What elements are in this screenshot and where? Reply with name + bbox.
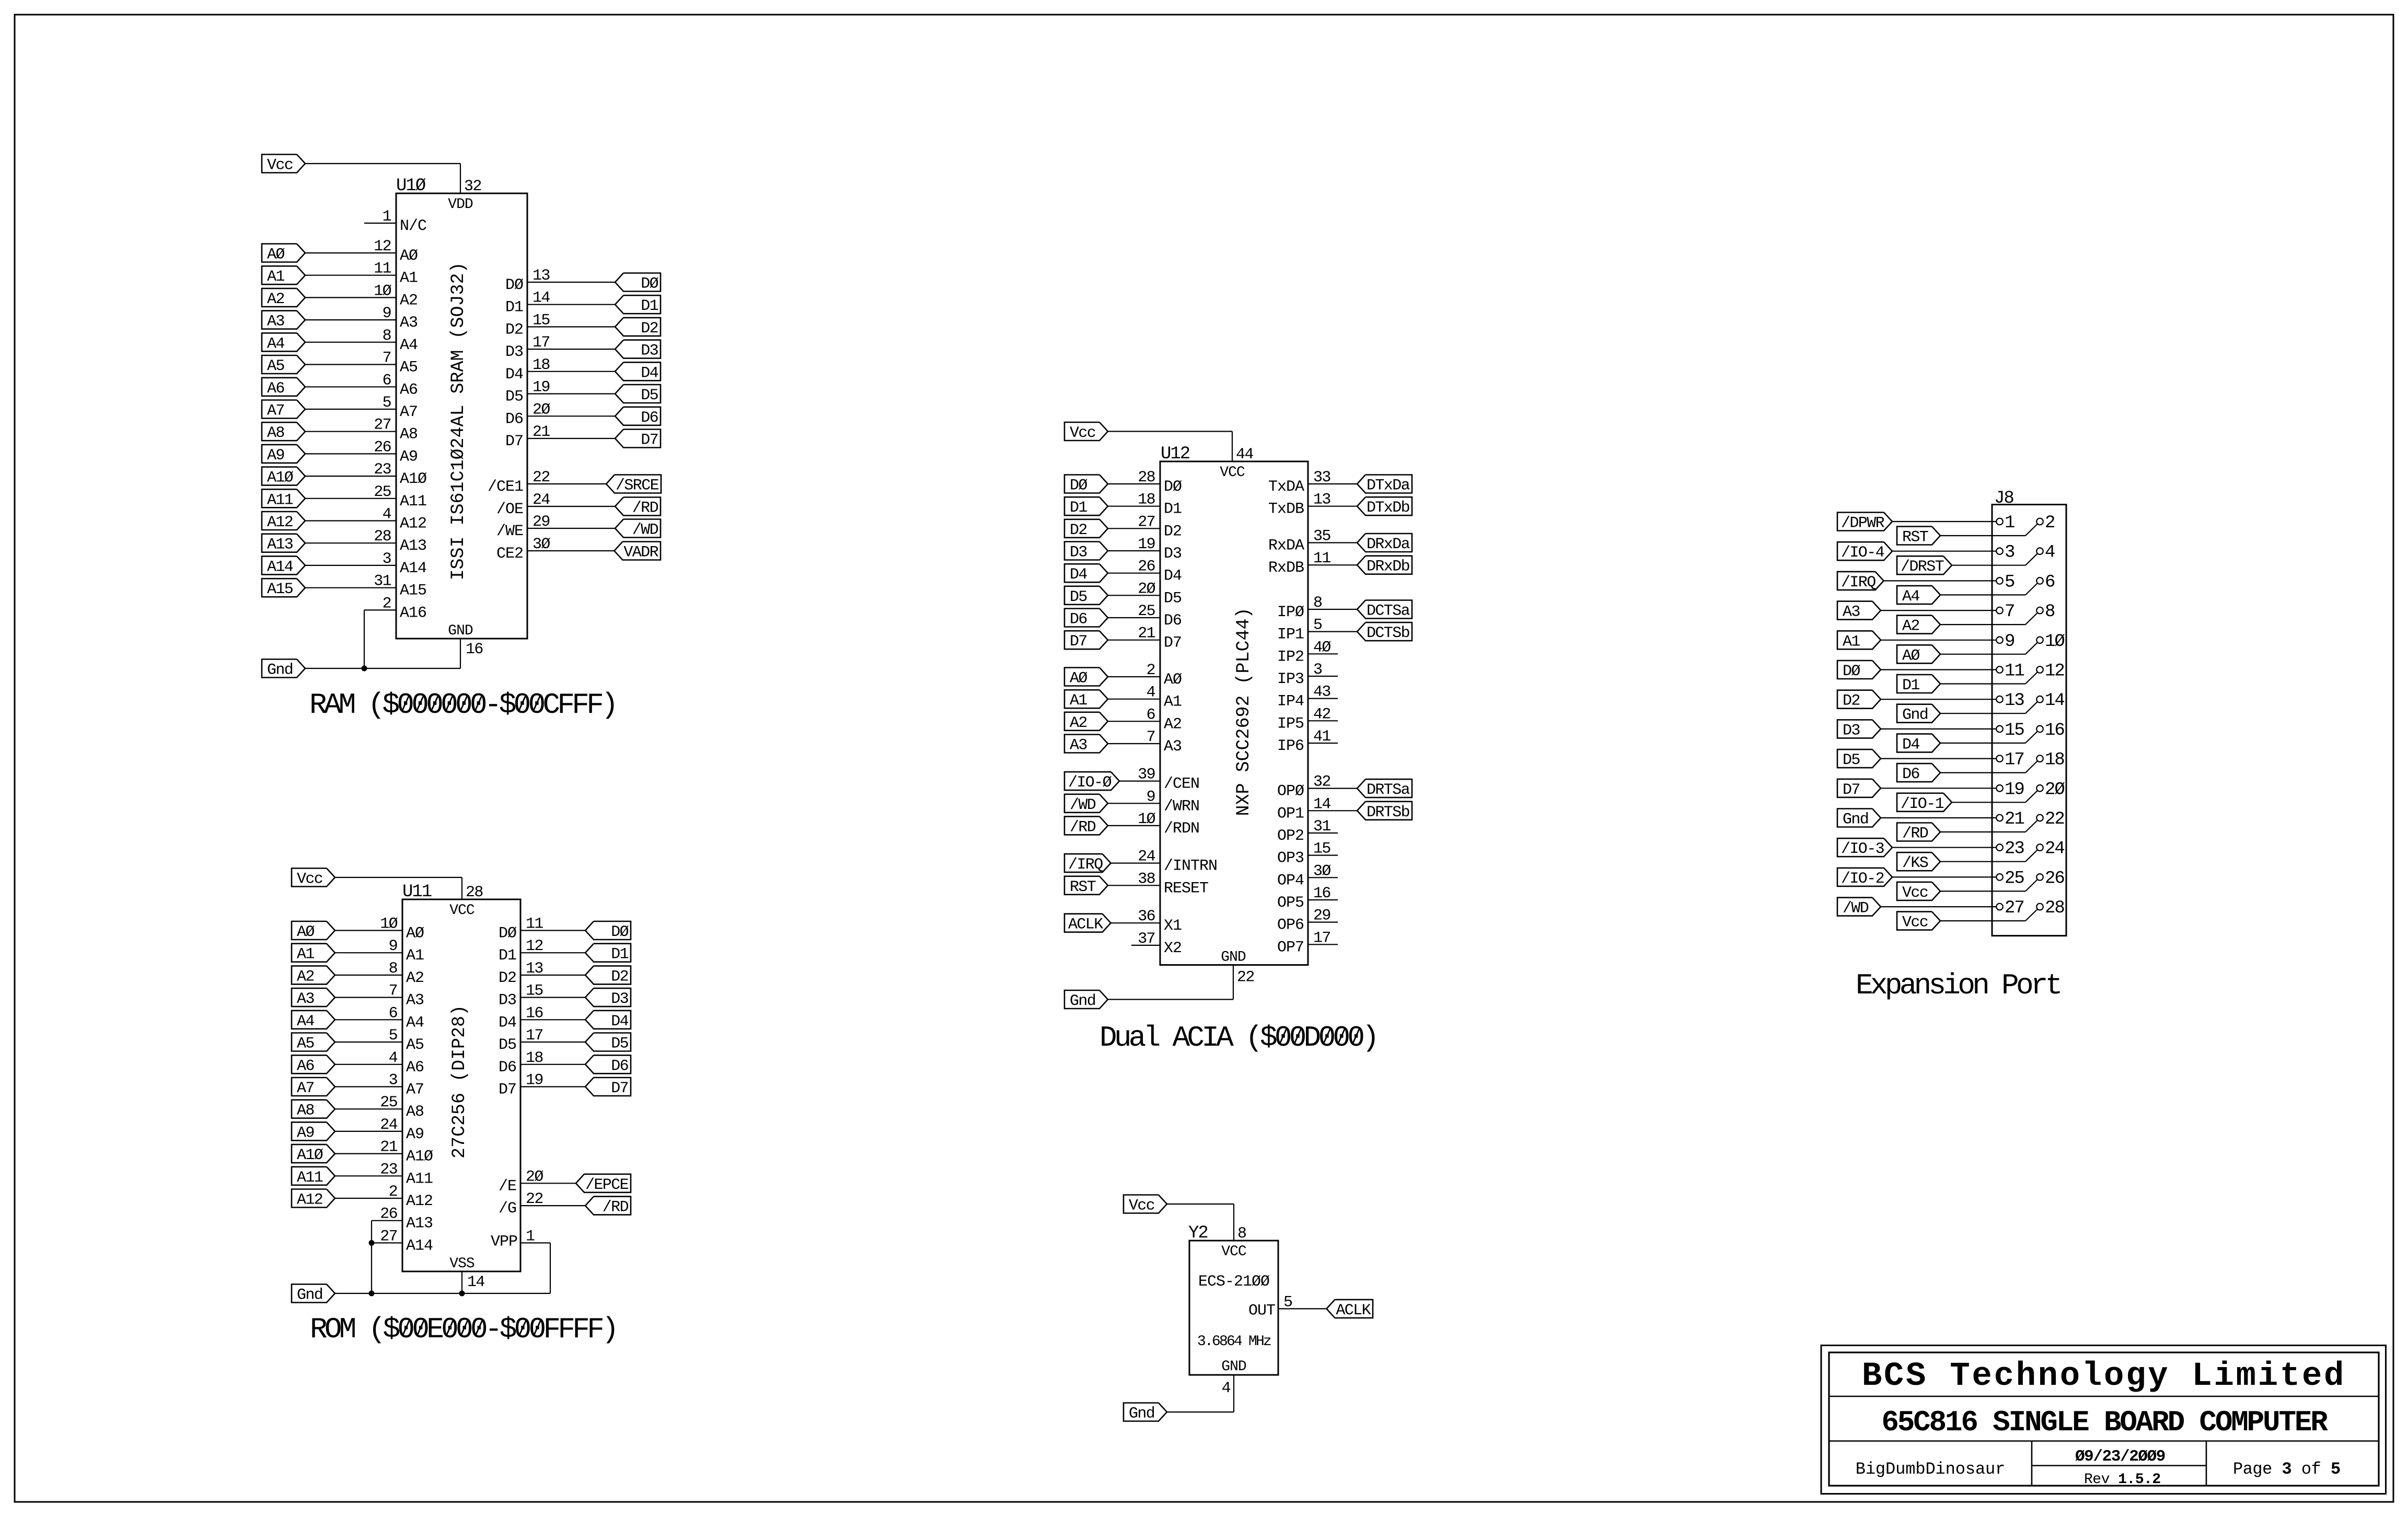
- svg-text:2: 2: [389, 1183, 397, 1201]
- svg-text:28: 28: [374, 528, 391, 546]
- svg-text:/INTRN: /INTRN: [1164, 858, 1217, 875]
- svg-text:D7: D7: [611, 1080, 628, 1097]
- svg-text:22: 22: [2045, 809, 2064, 829]
- svg-text:23: 23: [380, 1161, 397, 1178]
- svg-text:A13: A13: [406, 1215, 433, 1233]
- svg-text:5: 5: [2005, 572, 2015, 592]
- svg-text:IP6: IP6: [1277, 737, 1304, 755]
- svg-text:IP3: IP3: [1277, 670, 1304, 688]
- svg-text:15: 15: [526, 982, 543, 1000]
- svg-text:A4: A4: [267, 335, 284, 353]
- svg-text:AØ: AØ: [267, 246, 285, 264]
- svg-text:VDD: VDD: [448, 196, 473, 213]
- svg-text:DØ: DØ: [641, 275, 658, 293]
- svg-text:A13: A13: [267, 536, 293, 554]
- svg-text:D1: D1: [505, 299, 523, 317]
- svg-text:A9: A9: [267, 447, 284, 465]
- svg-text:A6: A6: [297, 1057, 314, 1075]
- svg-text:D2: D2: [611, 968, 628, 986]
- svg-text:A9: A9: [400, 448, 418, 466]
- svg-text:28: 28: [2045, 898, 2064, 918]
- svg-text:A1Ø: A1Ø: [297, 1147, 323, 1164]
- svg-text:1: 1: [2005, 513, 2015, 533]
- svg-text:15: 15: [532, 311, 550, 329]
- svg-text:RxDB: RxDB: [1268, 559, 1304, 577]
- svg-text:1Ø: 1Ø: [380, 916, 398, 933]
- svg-text:17: 17: [532, 334, 550, 352]
- svg-text:U1Ø: U1Ø: [396, 176, 426, 196]
- svg-text:D6: D6: [611, 1057, 628, 1075]
- svg-text:DCTSa: DCTSa: [1367, 603, 1410, 620]
- svg-text:9: 9: [389, 938, 397, 955]
- svg-text:21: 21: [1138, 625, 1155, 643]
- svg-text:D5: D5: [611, 1035, 628, 1053]
- svg-text:DTxDa: DTxDa: [1367, 477, 1410, 495]
- svg-text:AØ: AØ: [406, 925, 424, 943]
- svg-text:14: 14: [532, 290, 550, 307]
- svg-text:IP2: IP2: [1277, 648, 1304, 666]
- svg-text:A5: A5: [400, 359, 418, 377]
- svg-text:16: 16: [466, 641, 483, 658]
- svg-text:14: 14: [1313, 795, 1330, 813]
- svg-text:A4: A4: [406, 1014, 424, 1032]
- svg-text:DØ: DØ: [1843, 663, 1860, 680]
- svg-text:6: 6: [1147, 706, 1155, 724]
- svg-text:D6: D6: [1164, 612, 1182, 630]
- svg-text:11: 11: [1313, 550, 1330, 568]
- svg-text:4: 4: [2045, 543, 2055, 563]
- svg-text:23: 23: [2005, 839, 2024, 859]
- svg-text:29: 29: [1313, 907, 1330, 925]
- svg-text:13: 13: [2005, 691, 2024, 711]
- svg-text:A1: A1: [400, 270, 418, 287]
- svg-text:D5: D5: [641, 387, 658, 404]
- svg-text:DRxDb: DRxDb: [1367, 558, 1409, 576]
- svg-text:D3: D3: [1164, 545, 1182, 563]
- svg-text:AØ: AØ: [1070, 670, 1087, 688]
- svg-text:/IO-4: /IO-4: [1841, 544, 1884, 562]
- svg-text:A1: A1: [1070, 692, 1087, 710]
- svg-text:D3: D3: [505, 343, 523, 361]
- svg-text:4: 4: [383, 506, 391, 524]
- svg-text:/RDN: /RDN: [1164, 820, 1199, 838]
- svg-text:D2: D2: [1164, 523, 1182, 540]
- svg-text:Gnd: Gnd: [1902, 707, 1928, 724]
- svg-text:D4: D4: [499, 1014, 516, 1032]
- svg-text:8: 8: [1237, 1225, 1246, 1243]
- svg-text:A1: A1: [406, 947, 424, 965]
- svg-text:22: 22: [532, 469, 550, 487]
- svg-text:A3: A3: [406, 992, 424, 1010]
- svg-text:/RD: /RD: [1902, 825, 1928, 843]
- svg-text:5: 5: [1313, 617, 1322, 634]
- svg-text:D4: D4: [641, 364, 658, 382]
- svg-text:32: 32: [1313, 773, 1330, 791]
- svg-text:28: 28: [466, 884, 483, 901]
- svg-text:1Ø: 1Ø: [2045, 632, 2065, 652]
- svg-text:VCC: VCC: [1221, 1244, 1246, 1260]
- svg-text:D4: D4: [611, 1013, 628, 1031]
- svg-text:26: 26: [374, 438, 391, 456]
- svg-text:AØ: AØ: [297, 923, 315, 941]
- svg-text:25: 25: [1138, 603, 1155, 620]
- svg-text:12: 12: [2045, 662, 2064, 681]
- svg-text:11: 11: [374, 260, 391, 278]
- svg-text:31: 31: [374, 573, 391, 591]
- svg-text:44: 44: [1236, 446, 1253, 464]
- svg-text:3: 3: [389, 1072, 398, 1090]
- svg-text:A4: A4: [400, 337, 418, 354]
- svg-text:1Ø: 1Ø: [1138, 811, 1155, 828]
- svg-text:7: 7: [1147, 728, 1155, 746]
- svg-text:Rev 1.5.2: Rev 1.5.2: [2084, 1472, 2161, 1488]
- svg-text:28: 28: [1138, 469, 1155, 487]
- svg-text:A1: A1: [1843, 633, 1860, 651]
- svg-text:3: 3: [1313, 661, 1322, 679]
- svg-text:A3: A3: [1843, 604, 1860, 621]
- svg-text:A16: A16: [400, 604, 426, 622]
- svg-text:19: 19: [526, 1072, 543, 1090]
- svg-text:D6: D6: [499, 1059, 516, 1077]
- svg-text:5: 5: [389, 1027, 398, 1045]
- svg-text:A3: A3: [297, 990, 314, 1008]
- svg-text:19: 19: [1138, 536, 1155, 553]
- svg-text:VPP: VPP: [491, 1233, 517, 1251]
- svg-text:J8: J8: [1994, 489, 2013, 508]
- svg-text:AØ: AØ: [1164, 671, 1182, 689]
- svg-text:GND: GND: [1221, 950, 1246, 966]
- svg-text:8: 8: [2045, 602, 2055, 622]
- svg-text:Vcc: Vcc: [267, 157, 293, 175]
- svg-text:3.6864 MHz: 3.6864 MHz: [1197, 1334, 1271, 1350]
- svg-text:Expansion Port: Expansion Port: [1856, 969, 2060, 1002]
- svg-text:VCC: VCC: [449, 902, 474, 919]
- svg-text:2: 2: [1147, 662, 1155, 679]
- svg-text:D3: D3: [641, 342, 658, 360]
- svg-text:11: 11: [526, 916, 543, 933]
- svg-text:A12: A12: [297, 1191, 322, 1209]
- svg-text:A8: A8: [406, 1103, 424, 1121]
- svg-text:DRTSb: DRTSb: [1367, 804, 1409, 821]
- svg-text:DTxDb: DTxDb: [1367, 499, 1409, 517]
- svg-text:43: 43: [1313, 684, 1330, 701]
- svg-text:A7: A7: [400, 403, 418, 421]
- svg-text:DØ: DØ: [1070, 477, 1087, 495]
- svg-text:15: 15: [1313, 840, 1330, 858]
- svg-text:Gnd: Gnd: [297, 1287, 322, 1304]
- svg-text:IP1: IP1: [1277, 626, 1304, 644]
- svg-text:D7: D7: [505, 433, 523, 450]
- svg-text:18: 18: [1138, 491, 1155, 509]
- svg-text:D5: D5: [1070, 588, 1087, 606]
- svg-text:D1: D1: [641, 297, 658, 315]
- svg-text:2Ø: 2Ø: [526, 1168, 543, 1186]
- svg-text:/WD: /WD: [1843, 900, 1869, 918]
- svg-text:A9: A9: [297, 1124, 314, 1142]
- svg-text:8: 8: [389, 960, 398, 978]
- svg-text:4: 4: [1147, 684, 1155, 702]
- svg-text:A5: A5: [406, 1036, 424, 1054]
- svg-text:4Ø: 4Ø: [1313, 639, 1331, 656]
- svg-text:7: 7: [2005, 602, 2014, 622]
- svg-text:18: 18: [526, 1049, 543, 1067]
- svg-text:OUT: OUT: [1248, 1302, 1275, 1320]
- svg-text:14: 14: [2045, 691, 2064, 711]
- svg-text:13: 13: [1313, 491, 1330, 509]
- svg-text:X2: X2: [1164, 940, 1182, 957]
- svg-text:OP2: OP2: [1277, 827, 1304, 845]
- svg-text:12: 12: [526, 938, 543, 955]
- svg-text:D5: D5: [1164, 589, 1182, 607]
- svg-text:24: 24: [380, 1116, 397, 1134]
- svg-text:A4: A4: [1902, 588, 1919, 606]
- svg-text:25: 25: [380, 1094, 397, 1112]
- svg-text:/CE1: /CE1: [488, 478, 523, 496]
- svg-text:27: 27: [374, 416, 391, 434]
- svg-text:ACLK: ACLK: [1068, 916, 1103, 934]
- svg-text:Vcc: Vcc: [1129, 1197, 1154, 1215]
- svg-text:A1Ø: A1Ø: [400, 470, 427, 488]
- svg-text:22: 22: [526, 1190, 543, 1208]
- svg-text:8: 8: [383, 327, 391, 345]
- svg-text:D7: D7: [641, 432, 658, 449]
- svg-text:Vcc: Vcc: [1902, 884, 1928, 902]
- svg-text:/EPCE: /EPCE: [585, 1176, 629, 1194]
- svg-text:A5: A5: [297, 1035, 314, 1053]
- svg-text:26: 26: [2045, 869, 2064, 888]
- svg-text:A14: A14: [406, 1237, 433, 1255]
- svg-text:19: 19: [2005, 780, 2024, 800]
- svg-text:/IRQ: /IRQ: [1068, 856, 1103, 874]
- svg-text:A15: A15: [400, 582, 426, 600]
- svg-text:39: 39: [1138, 766, 1155, 784]
- svg-text:A1: A1: [297, 946, 314, 964]
- svg-text:/DPWR: /DPWR: [1841, 515, 1885, 533]
- svg-text:A5: A5: [267, 357, 284, 375]
- svg-text:A1Ø: A1Ø: [406, 1148, 433, 1166]
- svg-text:A3: A3: [1070, 737, 1087, 755]
- svg-text:DØ: DØ: [505, 276, 524, 294]
- svg-text:TxDB: TxDB: [1268, 501, 1304, 518]
- svg-text:OP7: OP7: [1277, 939, 1304, 956]
- svg-text:A11: A11: [400, 493, 426, 511]
- svg-text:ISSI IS61C1Ø24AL SRAM (SOJ32): ISSI IS61C1Ø24AL SRAM (SOJ32): [448, 262, 469, 580]
- svg-text:DØ: DØ: [499, 925, 517, 943]
- svg-text:A2: A2: [297, 968, 314, 986]
- svg-text:27: 27: [2005, 898, 2024, 918]
- svg-text:D5: D5: [1843, 751, 1860, 769]
- svg-text:X1: X1: [1164, 917, 1182, 935]
- svg-text:GND: GND: [448, 623, 473, 639]
- svg-text:U11: U11: [402, 882, 432, 902]
- svg-text:27C256 (DIP28): 27C256 (DIP28): [449, 1005, 470, 1159]
- svg-text:5: 5: [383, 394, 391, 412]
- svg-text:A1Ø: A1Ø: [267, 469, 294, 487]
- svg-text:1: 1: [526, 1228, 535, 1245]
- svg-text:31: 31: [1313, 818, 1330, 836]
- svg-text:D1: D1: [1902, 677, 1919, 695]
- svg-text:Dual ACIA ($00D000): Dual ACIA ($00D000): [1099, 1021, 1376, 1055]
- svg-text:13: 13: [532, 267, 550, 285]
- svg-text:Vcc: Vcc: [1902, 914, 1928, 932]
- svg-text:A11: A11: [406, 1170, 433, 1188]
- svg-text:21: 21: [532, 423, 550, 441]
- svg-text:A2: A2: [406, 969, 424, 987]
- svg-text:D3: D3: [1070, 544, 1087, 562]
- svg-text:/WD: /WD: [1070, 796, 1096, 814]
- svg-text:A12: A12: [400, 515, 426, 533]
- svg-text:/RD: /RD: [1070, 818, 1096, 836]
- svg-text:23: 23: [374, 461, 391, 479]
- svg-text:/IRQ: /IRQ: [1841, 574, 1876, 592]
- svg-text:16: 16: [2045, 721, 2064, 740]
- svg-text:24: 24: [532, 491, 550, 509]
- svg-text:RST: RST: [1902, 529, 1928, 547]
- svg-text:Gnd: Gnd: [1129, 1405, 1154, 1423]
- svg-text:35: 35: [1313, 528, 1330, 546]
- svg-text:26: 26: [380, 1206, 397, 1223]
- svg-text:TxDA: TxDA: [1268, 478, 1304, 496]
- svg-text:Gnd: Gnd: [1070, 992, 1095, 1010]
- svg-text:/IO-Ø: /IO-Ø: [1068, 774, 1112, 792]
- svg-text:A6: A6: [267, 380, 284, 398]
- svg-text:4: 4: [1222, 1380, 1231, 1397]
- svg-text:DØ: DØ: [1164, 478, 1182, 496]
- svg-text:DRxDa: DRxDa: [1367, 536, 1410, 553]
- svg-text:D1: D1: [1070, 499, 1087, 517]
- svg-text:D3: D3: [611, 990, 628, 1008]
- svg-text:ECS-21ØØ: ECS-21ØØ: [1198, 1273, 1270, 1291]
- svg-text:A7: A7: [267, 402, 284, 420]
- svg-text:DRTSa: DRTSa: [1367, 781, 1410, 799]
- svg-text:65C816 SINGLE BOARD COMPUTER: 65C816 SINGLE BOARD COMPUTER: [1881, 1406, 2328, 1439]
- svg-text:U12: U12: [1161, 444, 1189, 464]
- svg-text:21: 21: [380, 1139, 397, 1156]
- svg-text:A2: A2: [1902, 618, 1919, 635]
- svg-text:A4: A4: [297, 1013, 314, 1031]
- svg-text:9: 9: [2005, 632, 2015, 652]
- svg-text:21: 21: [2005, 809, 2024, 829]
- svg-text:A8: A8: [400, 426, 418, 444]
- svg-text:OP5: OP5: [1277, 894, 1304, 912]
- svg-text:D2: D2: [505, 321, 523, 339]
- svg-text:3Ø: 3Ø: [532, 536, 550, 553]
- svg-text:A2: A2: [267, 291, 284, 308]
- svg-text:A15: A15: [267, 581, 293, 598]
- svg-text:A12: A12: [267, 514, 293, 531]
- svg-text:/OE: /OE: [496, 501, 523, 518]
- svg-text:14: 14: [467, 1274, 484, 1291]
- svg-text:32: 32: [464, 178, 481, 195]
- svg-text:D6: D6: [505, 410, 523, 428]
- svg-text:33: 33: [1313, 469, 1330, 487]
- svg-text:36: 36: [1138, 908, 1155, 925]
- svg-text:OP3: OP3: [1277, 850, 1304, 867]
- svg-text:18: 18: [532, 356, 550, 374]
- svg-text:A2: A2: [400, 292, 418, 309]
- svg-text:2: 2: [2045, 513, 2054, 533]
- svg-text:D3: D3: [1843, 722, 1860, 739]
- svg-text:/CEN: /CEN: [1164, 776, 1199, 793]
- svg-text:OP1: OP1: [1277, 805, 1304, 823]
- svg-text:17: 17: [1313, 929, 1330, 947]
- svg-text:/G: /G: [499, 1200, 516, 1218]
- svg-text:A9: A9: [406, 1126, 424, 1143]
- svg-text:BCS Technology Limited: BCS Technology Limited: [1862, 1358, 2346, 1395]
- svg-text:/RD: /RD: [632, 500, 658, 517]
- svg-text:13: 13: [526, 960, 543, 978]
- svg-text:A11: A11: [297, 1169, 323, 1187]
- svg-text:/DRST: /DRST: [1901, 558, 1944, 576]
- svg-text:9: 9: [383, 305, 391, 322]
- svg-text:24: 24: [1138, 848, 1155, 866]
- svg-text:D7: D7: [1070, 633, 1087, 651]
- svg-text:26: 26: [1138, 558, 1155, 576]
- svg-text:Page 3 of 5: Page 3 of 5: [2233, 1460, 2341, 1479]
- svg-text:D7: D7: [499, 1081, 516, 1099]
- svg-text:16: 16: [1313, 885, 1330, 902]
- svg-text:D1: D1: [611, 946, 628, 964]
- svg-text:D4: D4: [1902, 736, 1919, 754]
- svg-text:VSS: VSS: [449, 1256, 474, 1272]
- svg-text:/IO-3: /IO-3: [1841, 840, 1884, 858]
- svg-text:D5: D5: [499, 1036, 516, 1054]
- svg-text:37: 37: [1138, 930, 1155, 948]
- svg-text:VADR: VADR: [623, 544, 658, 562]
- svg-text:A8: A8: [297, 1102, 314, 1120]
- svg-text:/KS: /KS: [1902, 854, 1928, 872]
- svg-text:1: 1: [383, 208, 391, 226]
- svg-text:/WRN: /WRN: [1164, 797, 1199, 815]
- svg-text:D6: D6: [641, 409, 658, 427]
- svg-text:6: 6: [389, 1004, 398, 1022]
- svg-text:1Ø: 1Ø: [374, 282, 391, 300]
- svg-text:Y2: Y2: [1188, 1223, 1208, 1243]
- svg-text:OPØ: OPØ: [1277, 783, 1304, 801]
- svg-text:A1: A1: [1164, 693, 1182, 711]
- svg-text:D2: D2: [641, 320, 658, 338]
- svg-text:4: 4: [389, 1049, 398, 1067]
- svg-text:2: 2: [383, 595, 391, 612]
- svg-text:D5: D5: [505, 388, 523, 406]
- svg-text:41: 41: [1313, 728, 1330, 746]
- svg-text:/SRCE: /SRCE: [616, 477, 659, 495]
- svg-text:A6: A6: [406, 1059, 424, 1077]
- svg-text:IP5: IP5: [1277, 715, 1304, 733]
- svg-text:D1: D1: [499, 947, 516, 965]
- svg-text:A11: A11: [267, 491, 293, 509]
- svg-text:17: 17: [526, 1027, 543, 1045]
- svg-text:Vcc: Vcc: [297, 871, 322, 888]
- svg-text:3Ø: 3Ø: [1313, 862, 1331, 880]
- svg-text:OP4: OP4: [1277, 872, 1304, 889]
- svg-text:BigDumbDinosaur: BigDumbDinosaur: [1856, 1460, 2006, 1479]
- svg-text:Gnd: Gnd: [267, 662, 293, 679]
- svg-text:7: 7: [389, 982, 397, 1000]
- svg-text:2Ø: 2Ø: [532, 401, 550, 419]
- svg-text:A8: A8: [267, 424, 284, 442]
- svg-text:42: 42: [1313, 705, 1330, 723]
- svg-text:A14: A14: [400, 560, 426, 577]
- svg-text:D6: D6: [1902, 766, 1919, 783]
- svg-text:N/C: N/C: [400, 217, 426, 235]
- svg-text:D4: D4: [1070, 566, 1087, 584]
- svg-text:AØ: AØ: [400, 247, 418, 265]
- svg-text:6: 6: [383, 372, 391, 389]
- svg-text:ACLK: ACLK: [1336, 1302, 1371, 1320]
- svg-text:A7: A7: [297, 1080, 314, 1097]
- svg-text:22: 22: [1237, 969, 1254, 987]
